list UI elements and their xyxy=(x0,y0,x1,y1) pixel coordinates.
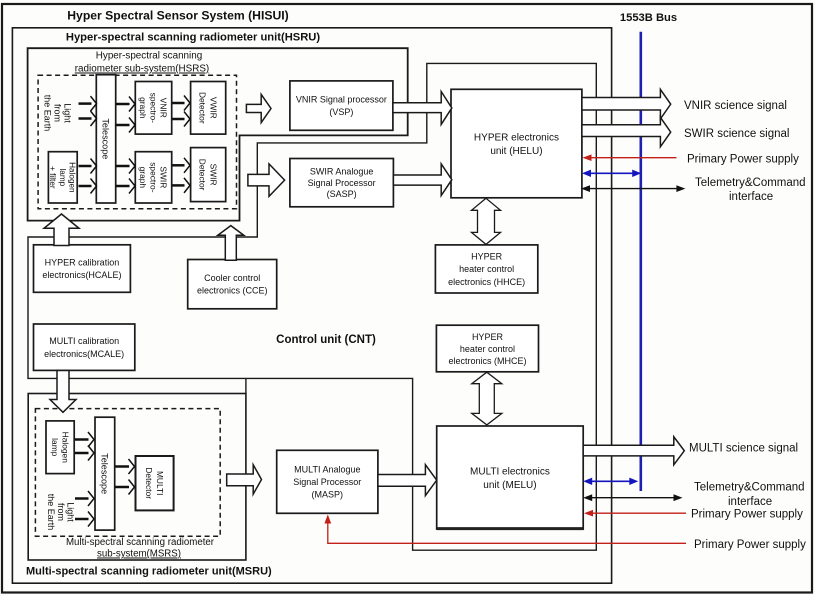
svg-text:VNIR science signal: VNIR science signal xyxy=(684,100,787,112)
svg-text:+ filter: + filter xyxy=(48,166,57,189)
svg-text:heater control: heater control xyxy=(459,264,514,274)
svg-text:SWIR: SWIR xyxy=(159,166,169,188)
MELU thick bottom shadow edge xyxy=(437,527,584,530)
signal arrow HCALE to HSRS calibration xyxy=(44,214,79,246)
primary power supply wire to MASP (red, bottom) xyxy=(324,515,686,544)
box MCALE xyxy=(34,324,135,370)
wire arrow telescope to SWIR spectrograph 1 xyxy=(116,159,135,174)
svg-text:Hyper-spectral scanning: Hyper-spectral scanning xyxy=(96,51,202,62)
svg-text:HYPER: HYPER xyxy=(471,252,503,262)
control unit CNT boundary polygon xyxy=(28,63,596,550)
svg-text:from: from xyxy=(56,503,66,521)
svg-text:electronics (MHCE): electronics (MHCE) xyxy=(448,356,526,366)
node Light from the Earth (MSRS) (rotated text) xyxy=(46,494,76,531)
signal arrow HELU to HHCE heater link xyxy=(472,198,501,244)
wire arrow SWIR spectrograph to SWIR detector 1 xyxy=(173,158,191,173)
svg-text:1553B Bus: 1553B Bus xyxy=(620,12,677,24)
svg-text:(VSP): (VSP) xyxy=(329,107,353,117)
svg-text:VWIR: VWIR xyxy=(209,97,219,119)
box VSP xyxy=(290,81,393,130)
MSRS dashed box xyxy=(35,409,220,537)
HSRS sub-system solid boundary (bulge wraps VSP) xyxy=(28,48,408,220)
signal arrow SASP to HELU xyxy=(393,164,451,196)
svg-text:(MASP): (MASP) xyxy=(312,490,344,500)
svg-text:electronics(MCALE): electronics(MCALE) xyxy=(44,349,124,359)
HSRU/MSRU unit box xyxy=(12,28,611,583)
box MULTI detector (rotated label) xyxy=(136,456,174,510)
box Halogen lamp (MSRS) (rotated label) xyxy=(46,421,74,474)
signal arrow VSP to HELU xyxy=(393,92,452,125)
svg-text:Telescope: Telescope xyxy=(100,453,110,494)
svg-text:SWIR Analogue: SWIR Analogue xyxy=(310,167,374,177)
svg-text:Halogen: Halogen xyxy=(60,432,70,464)
svg-text:from: from xyxy=(53,104,63,122)
svg-text:Signal Processor: Signal Processor xyxy=(293,477,361,487)
svg-text:Signal Processor: Signal Processor xyxy=(308,178,376,188)
svg-text:interface: interface xyxy=(728,496,772,508)
svg-text:Detector: Detector xyxy=(144,467,154,499)
svg-text:unit (MELU): unit (MELU) xyxy=(483,480,536,491)
svg-text:MULTI calibration: MULTI calibration xyxy=(49,336,119,346)
svg-text:Hyper Spectral Sensor System (: Hyper Spectral Sensor System (HISUI) xyxy=(67,9,288,23)
svg-text:HYPER electronics: HYPER electronics xyxy=(474,132,559,143)
primary power supply arrow into HELU (red) xyxy=(583,154,677,161)
box MHCE xyxy=(436,325,538,372)
svg-text:Telescope: Telescope xyxy=(101,118,111,159)
svg-text:lamp: lamp xyxy=(50,438,60,456)
svg-text:radiometer sub-system(HSRS): radiometer sub-system(HSRS) xyxy=(75,64,209,75)
wire arrow halogen to telescope (MSRS) 1 xyxy=(75,432,94,447)
primary power supply arrow into MELU (red) xyxy=(584,510,686,517)
box Telescope (HSRS) (rotated label) xyxy=(96,75,115,203)
wire arrow telescope to MULTI detector 2 xyxy=(116,480,135,495)
wire arrow light to telescope (MSRS) 2 xyxy=(75,512,94,527)
svg-text:graph: graph xyxy=(138,97,148,119)
svg-text:Control unit (CNT): Control unit (CNT) xyxy=(276,334,376,346)
wire arrow halogen to telescope (MSRS) 2 xyxy=(75,446,94,461)
box HCALE xyxy=(34,245,131,292)
svg-text:VNIR Signal processor: VNIR Signal processor xyxy=(296,95,387,105)
svg-text:HYPER: HYPER xyxy=(472,332,504,342)
svg-text:interface: interface xyxy=(729,191,773,203)
svg-text:SWIR science signal: SWIR science signal xyxy=(684,128,789,140)
spur wire joining CNT edge to MSRS box top xyxy=(245,378,247,393)
svg-text:Multi-spectral scanning radiom: Multi-spectral scanning radiometer unit(… xyxy=(26,566,272,578)
box VNIR spectrograph (rotated label) xyxy=(135,82,171,135)
svg-text:sub-system(MSRS): sub-system(MSRS) xyxy=(97,549,181,560)
signal arrow VNIR science signal arrow xyxy=(582,89,671,119)
box SWIR spectrograph (rotated label) xyxy=(135,152,171,203)
svg-text:Halogen: Halogen xyxy=(67,162,76,193)
box MASP xyxy=(277,450,378,513)
svg-text:MULTI electronics: MULTI electronics xyxy=(470,466,550,477)
box HELU xyxy=(451,89,582,198)
box SWIR detector (rotated label) xyxy=(191,148,226,202)
1553B bus link HELU (blue double arrow) xyxy=(582,170,641,177)
svg-text:MULTI science signal: MULTI science signal xyxy=(689,443,798,455)
signal arrow HSRS to VSP xyxy=(246,94,271,122)
svg-text:Telemetry&Command: Telemetry&Command xyxy=(694,482,805,494)
svg-text:(SASP): (SASP) xyxy=(327,189,357,199)
svg-text:MULTI: MULTI xyxy=(155,471,165,496)
wire arrow light to telescope (MSRS) 1 xyxy=(75,491,94,506)
1553B bus link MELU (blue double arrow) xyxy=(583,478,638,485)
box Halogen lamp + filter (rotated label) xyxy=(48,152,77,203)
svg-text:Primary Power supply: Primary Power supply xyxy=(694,539,806,551)
wire arrow telescope to VNIR spectrograph 1 xyxy=(116,97,135,112)
signal arrow MHCE to MELU heater link xyxy=(472,372,502,425)
node Light from the Earth (HSRS) (rotated text) xyxy=(43,95,73,132)
svg-text:Detector: Detector xyxy=(198,92,208,124)
signal arrow SWIR science signal arrow xyxy=(582,117,671,146)
signal arrow CCE to HSRS cooler xyxy=(218,226,244,261)
signal arrow MASP to MELU xyxy=(378,465,437,496)
box VWIR detector (rotated label) xyxy=(191,82,226,135)
svg-text:Cooler control: Cooler control xyxy=(204,273,260,283)
wire arrow SWIR spectrograph to SWIR detector 2 xyxy=(173,178,191,193)
signal arrow MCALE to MSRS calibration xyxy=(50,371,76,413)
svg-text:the Earth: the Earth xyxy=(43,95,53,132)
signal arrow MULTI science signal arrow xyxy=(583,437,684,465)
telemetry and command interface MELU (black double arrow) xyxy=(583,494,682,501)
svg-text:Detector: Detector xyxy=(198,159,208,191)
svg-text:spectro-: spectro- xyxy=(148,162,158,192)
wire arrow light to telescope 2 xyxy=(79,111,97,126)
wire arrow telescope to MULTI detector 1 xyxy=(116,459,135,474)
box HHCE xyxy=(435,245,537,293)
1553B bus vertical line xyxy=(639,32,642,491)
svg-text:Light: Light xyxy=(62,103,72,123)
wire arrow light to telescope 1 xyxy=(79,96,97,111)
svg-text:Light: Light xyxy=(66,502,76,522)
box MELU xyxy=(437,426,584,529)
telemetry and command interface HELU (black double arrow) xyxy=(581,185,685,192)
svg-text:VNIR: VNIR xyxy=(159,98,169,118)
svg-text:the Earth: the Earth xyxy=(46,494,56,531)
wire arrow VNIR spectrograph to VWIR detector 2 xyxy=(173,112,191,127)
wire arrow halogen to telescope 1 xyxy=(79,159,97,174)
box Telescope (MSRS) (rotated label) xyxy=(95,417,115,530)
svg-text:Hyper-spectral scanning radiom: Hyper-spectral scanning radiometer unit(… xyxy=(66,32,321,44)
wire arrow telescope to SWIR spectrograph 2 xyxy=(116,179,135,194)
signal arrow MSRS to MASP xyxy=(227,465,262,495)
svg-text:Primary Power supply: Primary Power supply xyxy=(687,153,799,165)
svg-text:Multi-spectral scanning radiom: Multi-spectral scanning radiometer xyxy=(66,537,215,548)
svg-text:electronics(HCALE): electronics(HCALE) xyxy=(42,270,121,280)
svg-text:electronics (HHCE): electronics (HHCE) xyxy=(448,277,525,287)
wire arrow VNIR spectrograph to VWIR detector 1 xyxy=(173,96,191,111)
svg-text:SWIR: SWIR xyxy=(209,164,219,186)
svg-text:unit (HELU): unit (HELU) xyxy=(490,146,542,157)
HSRS dashed box xyxy=(38,75,236,209)
svg-text:HYPER calibration: HYPER calibration xyxy=(45,258,120,268)
wire arrow halogen to telescope 2 xyxy=(79,179,97,194)
signal arrow HSRS to SASP xyxy=(248,164,285,197)
wire arrow telescope to VNIR spectrograph 2 xyxy=(116,118,135,133)
svg-text:graph: graph xyxy=(138,167,148,189)
svg-text:heater control: heater control xyxy=(460,344,515,354)
svg-text:lamp: lamp xyxy=(58,168,67,186)
svg-text:spectro-: spectro- xyxy=(148,93,158,123)
svg-text:MULTI Analogue: MULTI Analogue xyxy=(294,465,360,475)
svg-text:Telemetry&Command: Telemetry&Command xyxy=(695,177,806,189)
svg-text:electronics (CCE): electronics (CCE) xyxy=(197,286,268,296)
svg-text:Primary Power supply: Primary Power supply xyxy=(691,509,803,521)
MSRS sub-system solid box xyxy=(28,394,246,561)
box CCE xyxy=(188,260,277,309)
box SASP xyxy=(290,159,394,207)
